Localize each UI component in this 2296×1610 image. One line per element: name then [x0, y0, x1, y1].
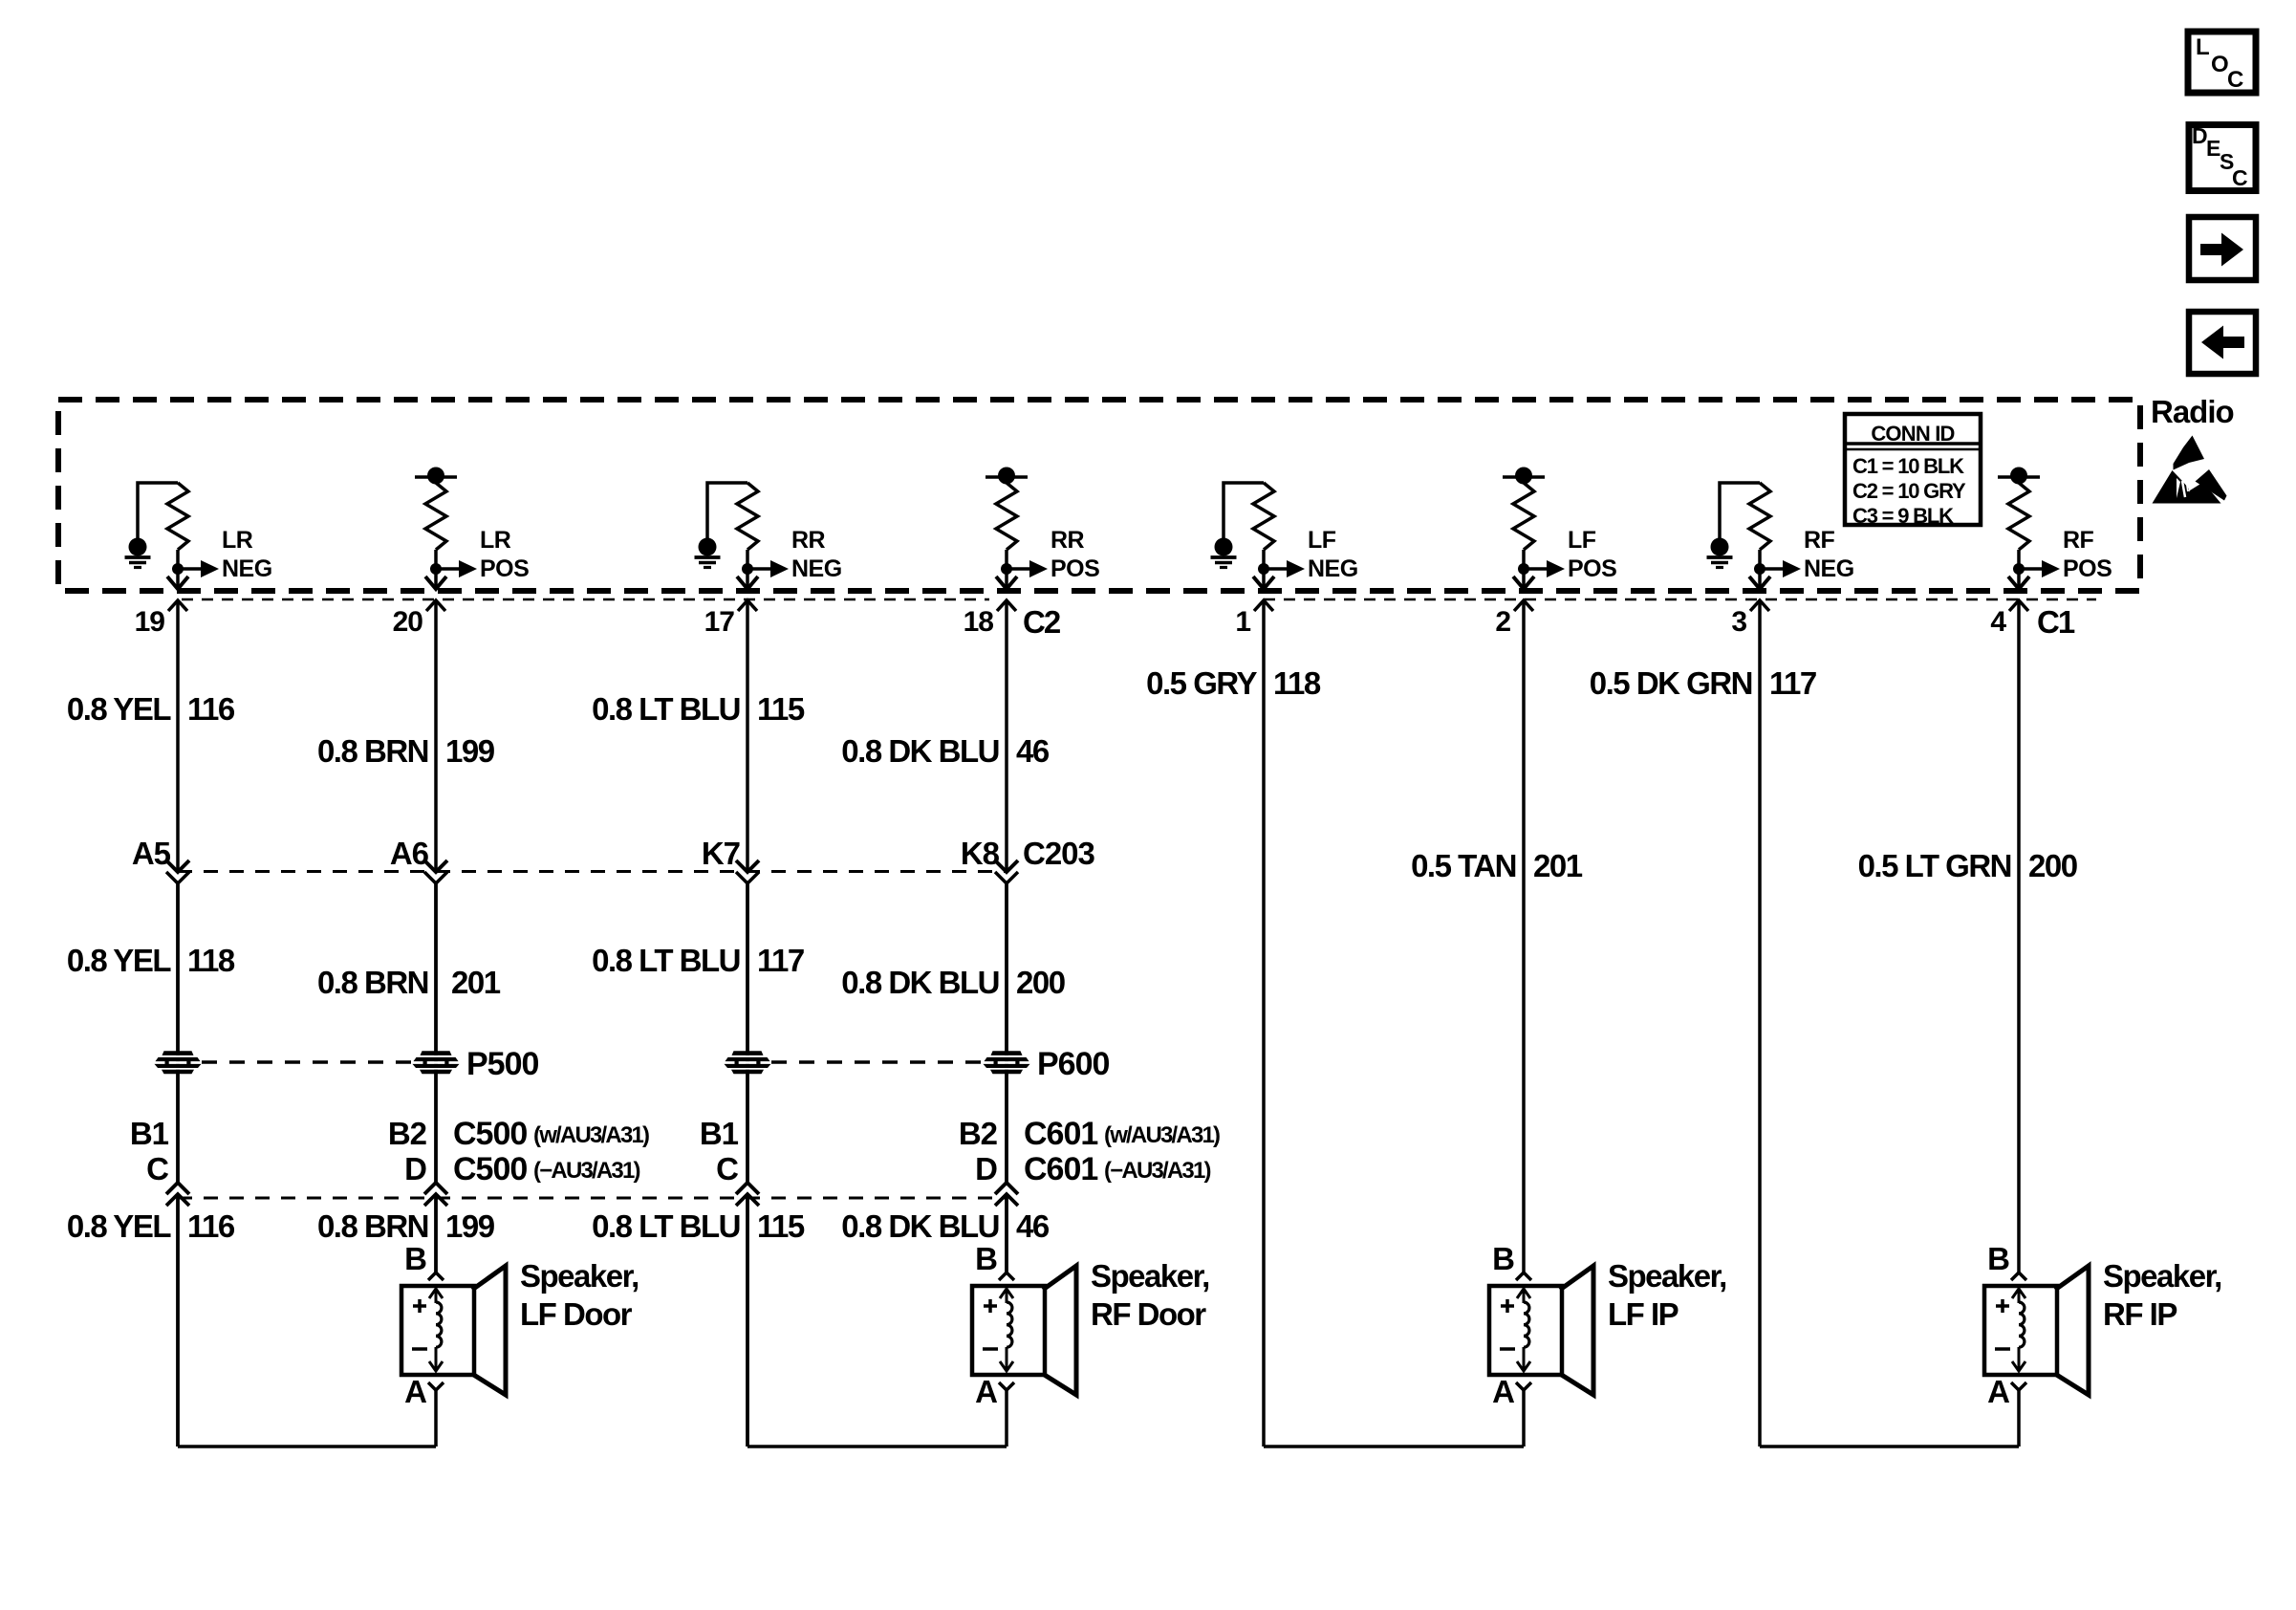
- svg-text:Radio: Radio: [2151, 394, 2234, 429]
- svg-text:46: 46: [1016, 1208, 1050, 1244]
- svg-text:L: L: [2196, 34, 2210, 60]
- svg-text:17: 17: [704, 606, 735, 638]
- svg-text:P600: P600: [1037, 1046, 1109, 1082]
- svg-text:0.8 DK BLU: 0.8 DK BLU: [841, 965, 999, 1000]
- svg-text:B: B: [975, 1241, 998, 1276]
- svg-text:LR: LR: [222, 527, 253, 554]
- svg-text:LF: LF: [1568, 527, 1596, 554]
- svg-text:0.8 DK BLU: 0.8 DK BLU: [841, 733, 999, 769]
- svg-text:0.8 LT BLU: 0.8 LT BLU: [592, 943, 740, 978]
- svg-text:A6: A6: [390, 836, 429, 871]
- svg-text:NEG: NEG: [222, 555, 272, 582]
- svg-text:RF: RF: [2063, 527, 2094, 554]
- svg-text:Speaker,: Speaker,: [1091, 1258, 1209, 1294]
- svg-text:0.8 BRN: 0.8 BRN: [317, 733, 428, 769]
- svg-text:B1: B1: [130, 1116, 169, 1151]
- svg-text:RF IP: RF IP: [2103, 1296, 2177, 1332]
- svg-text:0.5 GRY: 0.5 GRY: [1146, 665, 1257, 701]
- svg-text:4: 4: [1990, 606, 2006, 638]
- svg-text:(w/AU3/A31): (w/AU3/A31): [533, 1122, 649, 1148]
- svg-text:46: 46: [1016, 733, 1050, 769]
- svg-text:C: C: [146, 1151, 168, 1186]
- svg-text:C: C: [2227, 67, 2243, 93]
- svg-text:Speaker,: Speaker,: [2103, 1258, 2221, 1294]
- svg-text:A: A: [404, 1374, 427, 1409]
- svg-text:Speaker,: Speaker,: [520, 1258, 639, 1294]
- svg-text:RR: RR: [1051, 527, 1085, 554]
- svg-text:C2 = 10 GRY: C2 = 10 GRY: [1852, 479, 1966, 503]
- svg-text:C: C: [716, 1151, 738, 1186]
- svg-text:116: 116: [187, 1208, 235, 1244]
- svg-text:C203: C203: [1023, 836, 1095, 871]
- svg-text:A: A: [1492, 1374, 1515, 1409]
- svg-text:B: B: [1987, 1241, 2010, 1276]
- svg-text:0.8 YEL: 0.8 YEL: [67, 943, 171, 978]
- svg-text:C601: C601: [1024, 1151, 1097, 1187]
- svg-text:POS: POS: [1051, 555, 1099, 582]
- svg-text:0.8 BRN: 0.8 BRN: [317, 965, 428, 1000]
- svg-text:19: 19: [135, 606, 165, 638]
- svg-text:200: 200: [2028, 848, 2077, 883]
- svg-text:0.5 TAN: 0.5 TAN: [1411, 848, 1516, 883]
- svg-text:RF Door: RF Door: [1091, 1296, 1206, 1332]
- svg-text:B: B: [1492, 1241, 1515, 1276]
- svg-text:3: 3: [1731, 606, 1746, 638]
- svg-text:D: D: [975, 1151, 997, 1186]
- svg-text:B1: B1: [700, 1116, 739, 1151]
- svg-text:POS: POS: [2063, 555, 2112, 582]
- svg-text:C500: C500: [453, 1116, 527, 1152]
- svg-text:B2: B2: [959, 1116, 998, 1151]
- svg-text:199: 199: [445, 1208, 495, 1244]
- svg-text:0.8 YEL: 0.8 YEL: [67, 691, 171, 727]
- svg-text:C3 = 9 BLK: C3 = 9 BLK: [1852, 504, 1954, 528]
- svg-text:D: D: [404, 1151, 426, 1186]
- svg-text:LR: LR: [480, 527, 511, 554]
- svg-text:118: 118: [187, 943, 235, 978]
- svg-text:POS: POS: [1568, 555, 1616, 582]
- svg-text:O: O: [2211, 52, 2229, 77]
- svg-text:B: B: [404, 1241, 427, 1276]
- svg-text:20: 20: [393, 606, 423, 638]
- svg-text:(w/AU3/A31): (w/AU3/A31): [1104, 1122, 1220, 1148]
- svg-text:0.5 LT GRN: 0.5 LT GRN: [1858, 848, 2011, 883]
- svg-text:0.8 LT BLU: 0.8 LT BLU: [592, 691, 740, 727]
- svg-text:201: 201: [451, 965, 501, 1000]
- svg-text:A: A: [975, 1374, 998, 1409]
- svg-text:NEG: NEG: [791, 555, 842, 582]
- svg-text:POS: POS: [480, 555, 529, 582]
- svg-text:0.5 DK GRN: 0.5 DK GRN: [1590, 665, 1752, 701]
- svg-text:K7: K7: [702, 836, 740, 871]
- svg-text:0.8 YEL: 0.8 YEL: [67, 1208, 171, 1244]
- svg-text:201: 201: [1533, 848, 1583, 883]
- svg-text:RR: RR: [791, 527, 826, 554]
- svg-text:K8: K8: [961, 836, 1000, 871]
- svg-text:CONN ID: CONN ID: [1871, 422, 1954, 446]
- svg-text:200: 200: [1016, 965, 1065, 1000]
- svg-text:115: 115: [757, 691, 805, 727]
- svg-text:117: 117: [1769, 665, 1816, 701]
- svg-text:(−AU3/A31): (−AU3/A31): [1104, 1158, 1211, 1184]
- svg-text:NEG: NEG: [1308, 555, 1358, 582]
- svg-text:0.8 BRN: 0.8 BRN: [317, 1208, 428, 1244]
- svg-text:C1: C1: [2037, 604, 2075, 640]
- svg-text:P500: P500: [466, 1046, 538, 1082]
- svg-text:C1 = 10 BLK: C1 = 10 BLK: [1852, 454, 1964, 478]
- svg-text:115: 115: [757, 1208, 805, 1244]
- svg-text:0.8 LT BLU: 0.8 LT BLU: [592, 1208, 740, 1244]
- svg-text:C: C: [2232, 165, 2248, 190]
- svg-text:C601: C601: [1024, 1116, 1097, 1152]
- svg-text:B2: B2: [388, 1116, 427, 1151]
- svg-text:LF: LF: [1308, 527, 1336, 554]
- svg-text:C500: C500: [453, 1151, 527, 1187]
- svg-text:RF: RF: [1804, 527, 1835, 554]
- svg-text:0.8 DK BLU: 0.8 DK BLU: [841, 1208, 999, 1244]
- svg-text:NEG: NEG: [1804, 555, 1854, 582]
- svg-text:116: 116: [187, 691, 235, 727]
- svg-text:1: 1: [1235, 606, 1250, 638]
- svg-text:2: 2: [1495, 606, 1510, 638]
- svg-text:C2: C2: [1023, 604, 1061, 640]
- svg-text:199: 199: [445, 733, 495, 769]
- svg-text:18: 18: [964, 606, 994, 638]
- svg-text:118: 118: [1273, 665, 1321, 701]
- svg-text:(−AU3/A31): (−AU3/A31): [533, 1158, 640, 1184]
- svg-text:117: 117: [757, 943, 804, 978]
- svg-text:Speaker,: Speaker,: [1608, 1258, 1726, 1294]
- svg-text:A5: A5: [132, 836, 171, 871]
- svg-text:LF IP: LF IP: [1608, 1296, 1679, 1332]
- svg-text:A: A: [1987, 1374, 2010, 1409]
- svg-text:LF Door: LF Door: [520, 1296, 633, 1332]
